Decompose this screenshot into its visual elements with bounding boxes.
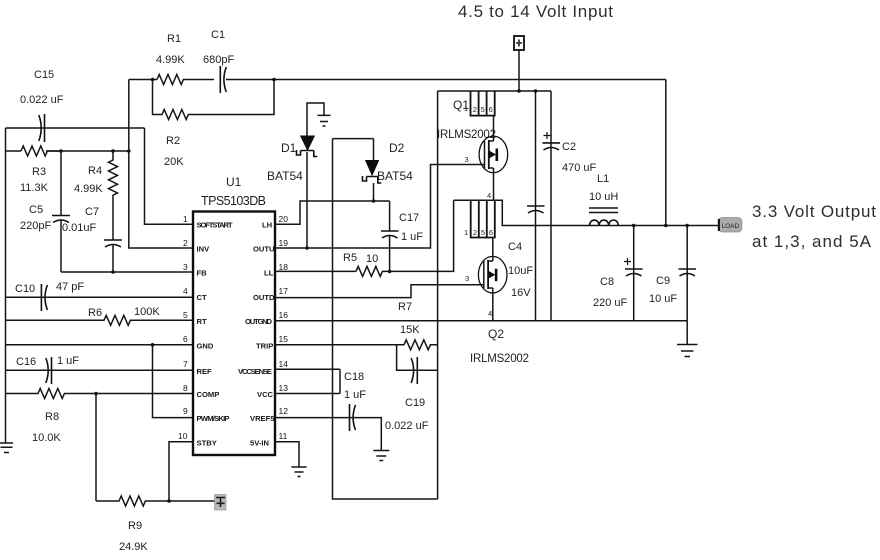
wire feedback to output node — [274, 79, 666, 81]
svg-text:220pF: 220pF — [20, 220, 51, 232]
svg-text:10 uH: 10 uH — [589, 191, 618, 203]
capacitor C8 220uF — [593, 226, 643, 321]
svg-text:20K: 20K — [164, 156, 184, 168]
resistor R9 — [96, 496, 216, 553]
node junction D2 cathode — [372, 199, 376, 203]
svg-text:3: 3 — [183, 262, 188, 272]
node junction feedback tap — [664, 224, 668, 228]
svg-text:4: 4 — [488, 309, 492, 318]
capacitor C7 — [62, 206, 122, 272]
node junction C17/R5 — [388, 270, 392, 274]
svg-text:TRIP: TRIP — [256, 342, 273, 351]
svg-text:20: 20 — [279, 214, 289, 224]
wire feedback top net — [129, 79, 157, 81]
svg-text:C2: C2 — [562, 141, 576, 153]
svg-text:C16: C16 — [16, 356, 36, 368]
wire OUTU to Q1 gate — [275, 165, 485, 249]
node junction C8 tap — [632, 224, 636, 228]
svg-text:4: 4 — [487, 191, 491, 200]
svg-text:LL: LL — [264, 269, 274, 278]
svg-text:470 uF: 470 uF — [562, 162, 597, 174]
svg-text:R7: R7 — [398, 301, 412, 313]
svg-text:10: 10 — [366, 253, 378, 265]
svg-text:2: 2 — [473, 228, 477, 237]
svg-text:LOAD: LOAD — [722, 223, 740, 230]
svg-text:1: 1 — [183, 214, 188, 224]
svg-text:6: 6 — [489, 105, 493, 114]
svg-text:24.9K: 24.9K — [119, 541, 148, 553]
node junction — [94, 392, 98, 396]
wire LH net — [275, 201, 390, 224]
node junction — [167, 499, 171, 503]
svg-text:16: 16 — [279, 310, 289, 320]
capacitor C17 — [381, 201, 423, 271]
svg-text:OUTU: OUTU — [253, 245, 275, 254]
svg-text:10 uF: 10 uF — [649, 293, 677, 305]
wire — [46, 150, 129, 152]
wire left ground bus — [5, 128, 7, 443]
wire VIN to TRIP/VCC vertical — [437, 91, 439, 499]
svg-text:17: 17 — [279, 286, 289, 296]
svg-text:15: 15 — [279, 334, 289, 344]
wire VCC pin — [275, 393, 340, 395]
resistor R3 — [20, 146, 62, 194]
svg-text:14: 14 — [279, 359, 289, 369]
diode D1 BAT54 — [267, 103, 324, 248]
svg-text:at 1,3, and 5A: at 1,3, and 5A — [752, 232, 872, 251]
svg-text:10uF: 10uF — [508, 265, 533, 277]
svg-text:C9: C9 — [656, 275, 670, 287]
ground — [292, 467, 307, 477]
svg-text:16V: 16V — [511, 287, 531, 299]
resistor R5 10 — [343, 200, 454, 276]
svg-text:3.3 Volt Output: 3.3 Volt Output — [752, 202, 876, 221]
wire output feedback vertical — [665, 80, 667, 226]
wire C15 to pin1 SOFTSTART — [145, 128, 194, 224]
wire VIN rail — [438, 90, 551, 92]
svg-text:R9: R9 — [128, 520, 142, 532]
svg-text:1: 1 — [464, 228, 468, 237]
svg-text:10.0K: 10.0K — [32, 432, 61, 444]
svg-text:0.022 uF: 0.022 uF — [20, 94, 64, 106]
svg-text:D1: D1 — [281, 141, 297, 155]
input terminal — [514, 36, 524, 91]
wire VCCSENSE — [275, 368, 340, 370]
svg-text:220 uF: 220 uF — [593, 297, 628, 309]
ground (output) — [677, 321, 698, 357]
svg-text:R3: R3 — [32, 166, 46, 178]
svg-text:FB: FB — [197, 269, 208, 278]
svg-text:6: 6 — [183, 334, 188, 344]
capacitor C4 — [508, 91, 545, 321]
node junction R4 tap — [111, 149, 115, 153]
svg-text:C8: C8 — [600, 276, 614, 288]
svg-text:5: 5 — [481, 105, 485, 114]
terminal PWM — [215, 495, 227, 511]
svg-text:R1: R1 — [167, 33, 181, 45]
svg-text:IRLMS2002: IRLMS2002 — [470, 353, 529, 365]
svg-text:1 uF: 1 uF — [401, 231, 423, 243]
svg-text:OUTD: OUTD — [253, 293, 275, 302]
svg-text:1 uF: 1 uF — [344, 389, 366, 401]
svg-text:PWM/SKIP: PWM/SKIP — [197, 414, 230, 423]
svg-text:6: 6 — [489, 228, 493, 237]
capacitor C1 — [203, 29, 274, 93]
svg-text:19: 19 — [279, 238, 289, 248]
resistor R6 — [6, 306, 194, 325]
node junction — [111, 270, 115, 274]
svg-text:12: 12 — [279, 406, 289, 416]
svg-text:VCCSENSE: VCCSENSE — [238, 367, 272, 376]
inductor L1 — [589, 173, 618, 226]
svg-text:STBY: STBY — [197, 439, 217, 448]
svg-text:CT: CT — [197, 293, 207, 302]
transistor Q2 IRLMS2002 — [464, 200, 529, 365]
ground (C18) — [373, 451, 389, 461]
ground — [0, 443, 13, 453]
svg-text:C5: C5 — [29, 204, 43, 216]
wire 5V-IN to ground — [275, 442, 299, 467]
node junction C4 — [534, 89, 538, 93]
svg-text:1: 1 — [464, 104, 468, 113]
wire GND net — [6, 344, 194, 346]
svg-text:680pF: 680pF — [203, 54, 234, 66]
svg-text:R6: R6 — [88, 307, 102, 319]
svg-text:5: 5 — [481, 228, 485, 237]
svg-text:100K: 100K — [134, 306, 160, 318]
wire TRIP net — [275, 344, 404, 346]
IC U1 TPS5103DB body — [193, 212, 275, 456]
svg-text:13: 13 — [279, 383, 289, 393]
wire LL net — [275, 270, 356, 272]
wire OUTD to Q2 gate — [275, 285, 483, 298]
svg-text:C19: C19 — [405, 397, 425, 409]
svg-text:R2: R2 — [166, 135, 180, 147]
wire VCC vertical net — [333, 139, 438, 499]
svg-text:9: 9 — [183, 406, 188, 416]
svg-text:OUTGND: OUTGND — [245, 317, 273, 326]
wire FB net — [61, 271, 193, 273]
svg-text:C15: C15 — [34, 69, 54, 81]
wire INV net vertical — [129, 80, 193, 249]
svg-text:5V-IN: 5V-IN — [250, 439, 269, 448]
ground (D1) — [318, 115, 331, 126]
svg-text:C10: C10 — [15, 283, 35, 295]
svg-text:RT: RT — [197, 317, 207, 326]
resistor R4 — [74, 151, 118, 240]
svg-text:C7: C7 — [85, 206, 99, 218]
svg-text:2: 2 — [473, 105, 477, 114]
svg-text:4.99K: 4.99K — [156, 54, 185, 66]
svg-text:5: 5 — [183, 310, 188, 320]
node junction D1/OUTU — [305, 246, 309, 250]
svg-text:SOFTSTART: SOFTSTART — [197, 221, 233, 230]
wire D2 anode to VCC rail — [333, 138, 374, 140]
capacitor C19 — [385, 345, 438, 432]
svg-text:C4: C4 — [508, 241, 522, 253]
svg-text:18: 18 — [279, 262, 289, 272]
svg-text:47 pF: 47 pF — [56, 281, 84, 293]
resistor R8 — [6, 389, 194, 445]
svg-text:GND: GND — [197, 342, 214, 351]
svg-text:3: 3 — [465, 155, 469, 164]
wire VCCSENSE-VCC link — [339, 369, 341, 393]
svg-text:U1: U1 — [226, 175, 242, 189]
capacitor C9 10uF — [649, 226, 696, 321]
capacitor C5 — [20, 151, 70, 272]
svg-text:L1: L1 — [597, 173, 609, 185]
svg-text:BAT54: BAT54 — [267, 169, 303, 183]
node junction INV riser — [127, 149, 131, 153]
svg-text:IRLMS2002: IRLMS2002 — [437, 129, 496, 141]
node junction C9 tap — [685, 224, 689, 228]
resistor R1 — [156, 33, 214, 85]
wire R3 net — [6, 150, 22, 152]
node junction C5 tap — [59, 149, 63, 153]
node junction — [272, 78, 276, 82]
svg-text:TPS5103DB: TPS5103DB — [201, 194, 266, 208]
svg-text:C18: C18 — [344, 371, 364, 383]
svg-text:1 uF: 1 uF — [57, 355, 79, 367]
capacitor C15 — [20, 69, 64, 142]
wire GND to PWM/SKIP — [153, 345, 194, 418]
svg-text:R4: R4 — [88, 165, 102, 177]
svg-text:11.3K: 11.3K — [20, 182, 49, 194]
svg-text:R5: R5 — [343, 252, 357, 264]
svg-text:2: 2 — [183, 238, 188, 248]
wire switch node bus — [454, 200, 719, 225]
svg-text:4.99K: 4.99K — [74, 183, 103, 195]
wire COMP to R9 — [95, 394, 97, 502]
transistor Q1 IRLMS2002 — [437, 91, 508, 200]
capacitor C2 470uF — [543, 91, 597, 321]
svg-text:VCC: VCC — [257, 390, 274, 399]
node junction input — [517, 89, 521, 93]
svg-text:R8: R8 — [45, 411, 59, 423]
node junction — [151, 343, 155, 347]
svg-text:7: 7 — [183, 359, 188, 369]
capacitor C10 — [6, 281, 194, 311]
capacitor C16 — [6, 355, 194, 384]
svg-text:0.01uF: 0.01uF — [62, 222, 97, 234]
svg-text:4.5 to 14 Volt Input: 4.5 to 14 Volt Input — [458, 2, 613, 21]
svg-text:BAT54: BAT54 — [377, 169, 413, 183]
svg-text:C1: C1 — [211, 29, 225, 41]
svg-text:LH: LH — [262, 221, 272, 230]
capacitor C18 — [275, 371, 381, 450]
svg-text:REF: REF — [197, 367, 213, 376]
diode D2 BAT54 — [363, 139, 414, 201]
svg-text:C17: C17 — [399, 212, 419, 224]
svg-text:D2: D2 — [389, 141, 405, 155]
resistor R2 parallel loop — [153, 80, 275, 169]
wire STBY — [169, 442, 193, 501]
svg-text:11: 11 — [279, 431, 288, 441]
svg-text:3: 3 — [465, 274, 469, 283]
svg-text:4: 4 — [183, 286, 188, 296]
wire OUTGND net — [275, 320, 687, 322]
svg-text:8: 8 — [183, 383, 188, 393]
svg-text:10: 10 — [178, 431, 188, 441]
node junction — [151, 78, 155, 82]
wire C15 net — [6, 127, 145, 129]
svg-text:INV: INV — [197, 245, 211, 254]
output terminal LOAD — [718, 218, 742, 233]
svg-text:15K: 15K — [400, 324, 420, 336]
svg-text:0.022 uF: 0.022 uF — [385, 420, 429, 432]
svg-text:COMP: COMP — [197, 390, 220, 399]
svg-text:VREF5: VREF5 — [250, 414, 275, 423]
svg-text:Q2: Q2 — [488, 327, 504, 341]
resistor R7 15K — [398, 301, 438, 350]
